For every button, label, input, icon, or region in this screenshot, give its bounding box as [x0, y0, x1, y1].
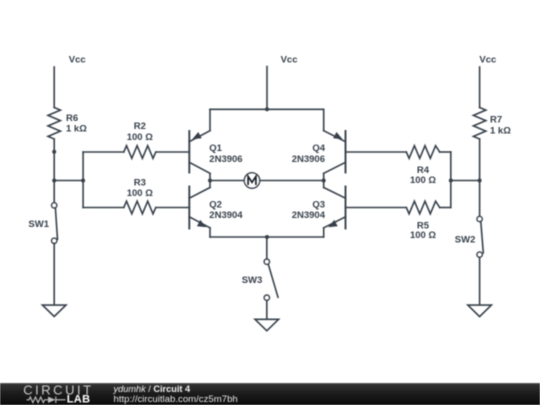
wire Vcc mid stub — [266, 67, 268, 110]
svg-text:1 kΩ: 1 kΩ — [66, 124, 87, 135]
node dot left R2/R3 junction — [81, 179, 85, 183]
svg-text:Q1: Q1 — [209, 143, 222, 154]
svg-text:Q4: Q4 — [312, 143, 325, 154]
svg-text:Q2: Q2 — [209, 199, 222, 210]
wire right rail to SW2 — [479, 139, 481, 216]
node dot right rail tap — [478, 179, 482, 183]
wire top rail — [210, 108, 324, 110]
wire SW2 to ground — [479, 257, 481, 305]
svg-text:R3: R3 — [134, 177, 146, 188]
svg-text:2N3904: 2N3904 — [292, 210, 326, 221]
switch SW1 — [52, 203, 58, 244]
wire SW1 to ground — [53, 244, 55, 306]
svg-text:R7: R7 — [490, 114, 502, 125]
resistor R5 — [346, 201, 451, 214]
wire SW3 to ground — [266, 300, 268, 319]
motor M1 — [244, 173, 260, 189]
wire Q4-Q3 collector vertical — [323, 173, 325, 187]
svg-text:100 Ω: 100 Ω — [410, 230, 436, 241]
svg-text:100 Ω: 100 Ω — [127, 188, 153, 199]
svg-text:Vcc: Vcc — [479, 55, 496, 66]
svg-text:100 Ω: 100 Ω — [410, 175, 436, 186]
svg-text:2N3906: 2N3906 — [209, 154, 242, 165]
logo squiggle — [27, 397, 66, 403]
footer bar — [0, 383, 540, 405]
node dot motor left — [208, 179, 212, 183]
svg-text:2N3906: 2N3906 — [292, 154, 325, 165]
svg-text:http://circuitlab.com/cz5m7bh: http://circuitlab.com/cz5m7bh — [114, 394, 238, 405]
resistor R3 — [83, 201, 189, 214]
wire left rail R6 to SW1 — [53, 139, 55, 203]
svg-text:100 Ω: 100 Ω — [127, 132, 153, 143]
transistor Q3 — [324, 187, 346, 238]
svg-text:SW2: SW2 — [455, 234, 476, 245]
svg-text:2N3904: 2N3904 — [209, 210, 243, 221]
wire bottom rail to SW3 — [266, 237, 268, 259]
node Vcc right wire — [479, 67, 481, 108]
svg-text:1 kΩ: 1 kΩ — [490, 125, 511, 136]
svg-text:Vcc: Vcc — [69, 55, 86, 66]
node dot bottom rail — [265, 235, 269, 239]
node dot left rail tap — [52, 179, 56, 183]
ground right — [468, 305, 492, 317]
svg-text:Vcc: Vcc — [281, 55, 298, 66]
svg-text:ydumhk / Circuit 4: ydumhk / Circuit 4 — [113, 384, 191, 394]
node dot top rail — [265, 107, 269, 111]
node Vcc left wire — [53, 67, 55, 108]
ground center — [255, 319, 279, 331]
svg-text:R2: R2 — [134, 121, 146, 132]
svg-text:SW3: SW3 — [242, 275, 263, 286]
transistor Q1 — [189, 109, 210, 173]
ground left — [42, 305, 66, 316]
svg-text:SW1: SW1 — [28, 219, 49, 230]
switch SW2 — [477, 216, 483, 257]
node dot R6 terminal — [52, 150, 56, 154]
resistor R6 — [48, 108, 60, 140]
wire Q1-Q2 collector vertical — [209, 173, 211, 187]
svg-text:R6: R6 — [66, 113, 78, 124]
resistor R2 — [83, 146, 189, 159]
switch SW3 — [264, 259, 278, 300]
transistor Q4 — [324, 109, 346, 173]
node dot motor right — [322, 179, 326, 183]
resistor R7 — [473, 108, 485, 140]
wire motor left — [210, 180, 244, 182]
transistor Q2 — [189, 187, 210, 238]
svg-text:Q3: Q3 — [312, 199, 325, 210]
resistor R4 — [346, 146, 451, 159]
wire left tap horizontal — [54, 180, 83, 182]
wire right R4-R5 vertical — [450, 152, 452, 208]
wire motor right — [260, 180, 324, 182]
node dot right junction — [449, 179, 453, 183]
wire left R2-R3 vertical — [82, 152, 84, 208]
svg-text:LAB: LAB — [67, 394, 91, 405]
wire bottom rail — [210, 236, 324, 238]
wire right tap horizontal — [451, 180, 480, 182]
